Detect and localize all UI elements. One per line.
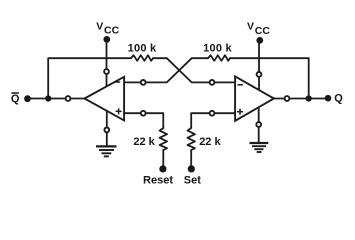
wire: Q output lead — [274, 98, 328, 100]
svg-text:100 k: 100 k — [128, 42, 157, 54]
terminal dot: left Vcc — [103, 36, 110, 43]
wire: right Vcc supply stub — [258, 40, 260, 90]
wire: left op-amp inverting input to crossover diagonal — [124, 58, 192, 82]
pin circle: U1 V+ pin — [104, 69, 109, 74]
label: minus sign U1 — [115, 81, 120, 83]
pin circle: U2 inverting input — [210, 80, 215, 85]
op-amp U2 (right, pointing right) — [235, 76, 274, 120]
wire: left feedback riser and top-left rail — [48, 58, 131, 98]
wire: top-right rail and right feedback riser — [230, 58, 309, 98]
terminal dot: Q-bar output — [24, 95, 31, 102]
svg-text:22 k: 22 k — [133, 136, 155, 148]
resistor R4 22k (right, vertical) — [188, 128, 195, 150]
op-amp U1 (left, pointing left) — [85, 77, 125, 121]
wire: Set branch to right non-inverting input — [191, 113, 235, 128]
label: plus sign U2 — [237, 109, 243, 115]
svg-text:Reset: Reset — [143, 174, 173, 186]
ground (right op-amp) — [250, 143, 269, 152]
wire: left non-inverting input to Reset branch — [124, 113, 163, 128]
pin circle: U2 V+ pin — [257, 72, 262, 77]
pin circle: U2 output — [285, 96, 290, 101]
svg-text:Q: Q — [11, 93, 20, 105]
terminal dot: Q output — [325, 95, 332, 102]
wire: crossover diagonal to right op-amp inverting input — [167, 58, 235, 82]
wire: R3 to Reset terminal — [162, 150, 164, 169]
svg-text:V: V — [247, 21, 254, 33]
svg-text:22 k: 22 k — [199, 136, 221, 148]
ground (left op-amp) — [96, 146, 117, 156]
resistor R1 100k (left, horizontal) — [131, 55, 153, 61]
wire: rail from R1 to crossover — [153, 57, 167, 59]
wire: left op-amp V- pin to ground — [106, 111, 108, 146]
label: plus sign U1 — [116, 108, 122, 114]
terminal dot: right Vcc — [256, 37, 263, 44]
pin circle: U2 V- pin — [256, 122, 261, 127]
label: minus sign U2 — [238, 84, 243, 86]
svg-text:100 k: 100 k — [203, 42, 232, 54]
svg-text:CC: CC — [255, 25, 271, 37]
terminal dot: Set — [188, 165, 195, 172]
wire: rail from crossover to R2 — [192, 57, 208, 59]
resistor R3 22k (left, vertical) — [160, 128, 167, 150]
wire: Q-bar output lead — [28, 98, 85, 100]
terminal dot: Reset — [159, 165, 166, 172]
svg-text:V: V — [96, 21, 103, 33]
junction: right output node — [306, 95, 312, 101]
pin circle: U1 non-inverting input — [141, 111, 146, 116]
wire: R4 to Set terminal — [190, 150, 192, 169]
wire: left Vcc supply stub — [106, 40, 108, 87]
pin circle: U1 inverting input — [141, 80, 146, 85]
svg-text:CC: CC — [104, 25, 120, 37]
pin circle: U2 non-inverting input — [210, 111, 215, 116]
label: overbar of Q-bar — [11, 92, 19, 94]
svg-text:Set: Set — [184, 174, 201, 186]
pin circle: U1 output — [66, 96, 71, 101]
wire: right op-amp V- pin to ground — [258, 107, 260, 143]
junction: left output node — [45, 95, 51, 101]
resistor R2 100k (right, horizontal) — [208, 55, 230, 61]
svg-text:Q: Q — [334, 93, 343, 105]
pin circle: U1 V- pin — [104, 127, 109, 132]
